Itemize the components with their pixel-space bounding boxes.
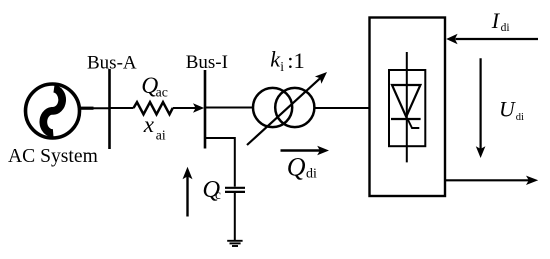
capacitor C plates bbox=[225, 188, 245, 192]
label Q_c bbox=[202, 176, 221, 203]
wire Bus-A to resistor bbox=[110, 107, 134, 109]
power-flow arrowhead into Bus-I bbox=[193, 103, 204, 113]
arrow U_di (DC voltage, downward) bbox=[476, 58, 486, 158]
wire capacitor to ground bbox=[234, 193, 236, 240]
wire Bus-I to transformer bbox=[205, 107, 253, 109]
label U_di bbox=[499, 98, 524, 123]
DC output arrow bbox=[445, 176, 538, 185]
arrow I_di (DC current, leftward) bbox=[446, 34, 538, 44]
transformer T1 primary winding bbox=[253, 88, 292, 127]
thyristor cathode bar bbox=[391, 118, 421, 120]
svg-text:Q: Q bbox=[287, 153, 306, 182]
branch wire from Bus-I to shunt capacitor bbox=[205, 138, 235, 187]
label I_di bbox=[491, 8, 510, 34]
svg-text::1: :1 bbox=[287, 48, 305, 73]
label Q_ac bbox=[141, 73, 168, 100]
svg-text:Bus-I: Bus-I bbox=[186, 52, 228, 73]
svg-text:ai: ai bbox=[156, 127, 166, 142]
ground bbox=[227, 241, 242, 246]
resistor Qac (xai) bbox=[134, 102, 173, 114]
label x_ai bbox=[143, 112, 166, 142]
label k_i :1 bbox=[270, 47, 304, 74]
converter block outer rectangle bbox=[370, 18, 446, 197]
wire transformer to converter bbox=[314, 107, 369, 109]
wire resistor to Bus-I bbox=[173, 107, 198, 109]
label Q_di bbox=[287, 153, 317, 182]
svg-text:i: i bbox=[280, 59, 284, 74]
svg-text:c: c bbox=[215, 187, 221, 202]
thyristor valve inner rectangle bbox=[389, 70, 425, 146]
arrow Q_c (reactive injection, upward) bbox=[183, 167, 193, 217]
thyristor valve vertical lead bbox=[406, 52, 408, 162]
bus Bus-I bbox=[204, 70, 207, 149]
svg-text:di: di bbox=[501, 22, 510, 34]
svg-text:AC System: AC System bbox=[8, 146, 98, 167]
tap-changer arrow through transformer bbox=[247, 72, 327, 145]
arrow Q_di (reactive power flow) bbox=[281, 146, 330, 156]
svg-text:x: x bbox=[143, 112, 155, 137]
AC source G1 bbox=[26, 84, 80, 138]
svg-text:I: I bbox=[491, 8, 501, 33]
svg-text:di: di bbox=[516, 112, 524, 123]
svg-text:Bus-A: Bus-A bbox=[87, 52, 137, 73]
transformer T1 secondary winding bbox=[275, 88, 314, 127]
thyristor Q1 triangle bbox=[392, 85, 420, 117]
svg-text:di: di bbox=[306, 167, 317, 182]
wire from AC source to Bus-A bbox=[79, 107, 110, 109]
svg-text:ac: ac bbox=[156, 85, 168, 100]
bus Bus-A bbox=[108, 69, 111, 149]
svg-text:U: U bbox=[499, 98, 516, 122]
thyristor gate lead bbox=[408, 119, 420, 128]
